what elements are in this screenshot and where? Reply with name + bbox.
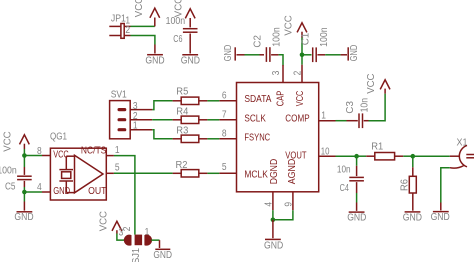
svg-text:C6: C6 bbox=[173, 34, 183, 45]
wire C4 to GND bbox=[356, 193, 358, 203]
U1 pin 7 stem bbox=[219, 119, 237, 121]
svg-text:8: 8 bbox=[222, 129, 227, 140]
wire JP1 pin1 to VCC bbox=[131, 25, 155, 27]
QG1 pin 8 stem bbox=[42, 155, 50, 157]
wire SJ1 pin1 to GND bbox=[151, 239, 159, 241]
svg-text:1: 1 bbox=[133, 121, 138, 132]
wire junction down to R6 bbox=[412, 156, 414, 167]
solder jumper SJ1 bbox=[124, 235, 152, 246]
ground at C2 (rotated) bbox=[235, 47, 244, 60]
svg-text:SDATA: SDATA bbox=[244, 94, 271, 105]
wire R4 to U1 pin7 bbox=[207, 119, 219, 121]
capacitor C1 bbox=[313, 47, 326, 62]
svg-text:GND: GND bbox=[431, 212, 450, 223]
svg-text:VCC: VCC bbox=[295, 91, 306, 107]
capacitor C2 bbox=[260, 47, 279, 62]
svg-text:QG1: QG1 bbox=[50, 132, 67, 143]
svg-text:VCC: VCC bbox=[98, 211, 109, 231]
wire pin9 down and left to junction bbox=[273, 210, 293, 220]
wire U1 pin10 (VOUT) to junction bbox=[336, 155, 357, 157]
svg-text:COMP: COMP bbox=[285, 113, 310, 124]
wire QG1 pin5 to R2 bbox=[114, 172, 173, 174]
svg-text:100n: 100n bbox=[166, 16, 186, 27]
VCC symbol at SJ1 bbox=[112, 221, 122, 233]
wire SV1 pin1 to R3 bbox=[152, 130, 172, 139]
svg-text:C4: C4 bbox=[340, 183, 350, 194]
op-amp U1 box (DAC IC) bbox=[237, 83, 319, 192]
U1 pin 1 stem bbox=[318, 120, 335, 122]
wire GND to C2 bbox=[245, 54, 260, 56]
svg-text:5: 5 bbox=[115, 163, 120, 174]
resistor R1 bbox=[366, 153, 403, 160]
ground at C6 bbox=[182, 45, 198, 55]
wire C5 to junction at QG1 pin4 bbox=[23, 187, 25, 192]
ground right of C1 (rotated) bbox=[341, 47, 349, 60]
svg-text:OUT: OUT bbox=[88, 186, 106, 197]
svg-text:C1: C1 bbox=[301, 32, 312, 45]
U1 pin 9 stem bbox=[292, 192, 294, 210]
svg-text:DGND: DGND bbox=[269, 159, 280, 185]
svg-text:7: 7 bbox=[222, 110, 227, 121]
svg-text:100n: 100n bbox=[272, 27, 283, 47]
QG1 pin 5 stem bbox=[106, 172, 114, 174]
svg-text:1: 1 bbox=[321, 110, 326, 121]
U1 pin 8 stem bbox=[219, 138, 237, 140]
oscillator QG1 box bbox=[50, 148, 106, 200]
svg-text:5: 5 bbox=[222, 162, 227, 173]
U1 pin 6 stem bbox=[219, 100, 237, 102]
svg-text:R1: R1 bbox=[371, 141, 383, 152]
capacitor C3 bbox=[347, 113, 369, 128]
ground at JP1 bbox=[147, 45, 163, 55]
junction VCC / C5 / QG1 pin8 bbox=[22, 153, 27, 158]
resistor R6 bbox=[409, 167, 416, 210]
svg-text:4: 4 bbox=[263, 202, 274, 207]
ground at C5 bbox=[17, 202, 33, 212]
svg-text:10n: 10n bbox=[359, 98, 370, 113]
svg-text:SJ1: SJ1 bbox=[131, 247, 142, 262]
svg-text:10n: 10n bbox=[337, 165, 351, 176]
wire R2 to U1 pin5 bbox=[207, 172, 219, 174]
resistor R3 bbox=[173, 135, 208, 142]
junction DGND/AGND bbox=[271, 218, 276, 223]
svg-text:R5: R5 bbox=[176, 86, 188, 97]
svg-text:1: 1 bbox=[115, 145, 120, 156]
svg-text:GND: GND bbox=[223, 45, 234, 62]
svg-text:SCLK: SCLK bbox=[244, 113, 266, 124]
QG1 pin 4 stem bbox=[42, 191, 50, 193]
svg-text:GND: GND bbox=[181, 55, 200, 66]
wire junction down to C4 bbox=[356, 156, 358, 166]
wire junction to QG1 pin8 bbox=[24, 155, 42, 157]
svg-text:GND: GND bbox=[349, 45, 360, 62]
svg-text:2: 2 bbox=[293, 70, 304, 75]
wire junction down to C5 bbox=[23, 156, 25, 168]
svg-text:GND: GND bbox=[153, 250, 172, 261]
junction R1 / R6 / X1 bbox=[411, 154, 416, 159]
svg-text:VCC: VCC bbox=[284, 15, 295, 35]
junction at VCC / C1 / IC pin2 bbox=[300, 53, 305, 58]
QG1 crystal bbox=[59, 156, 74, 192]
ground at C4 bbox=[349, 203, 365, 213]
U1 pin 10 stem bbox=[318, 155, 335, 157]
wire C2 to IC pin3 bbox=[279, 55, 283, 66]
svg-text:100n: 100n bbox=[0, 165, 17, 176]
ground at R6 bbox=[405, 211, 421, 213]
svg-text:2: 2 bbox=[122, 226, 133, 231]
svg-text:FSYNC: FSYNC bbox=[244, 132, 270, 143]
wire VCC down to junction bbox=[301, 38, 303, 55]
wire junction down to IC pin2 bbox=[301, 55, 303, 65]
resistor R2 bbox=[173, 170, 208, 177]
resistor R4 bbox=[173, 116, 208, 123]
ground at X1 bbox=[433, 203, 449, 212]
U1 pin 4 stem bbox=[272, 192, 274, 210]
capacitor C6 bbox=[183, 29, 198, 45]
svg-text:AGND: AGND bbox=[287, 159, 298, 185]
wire pin4 down to junction bbox=[272, 210, 274, 220]
svg-text:3: 3 bbox=[271, 70, 282, 75]
svg-text:C3: C3 bbox=[345, 101, 356, 114]
svg-text:GND: GND bbox=[53, 186, 70, 197]
connector SV1 bbox=[110, 101, 153, 139]
svg-text:6: 6 bbox=[222, 91, 227, 102]
VCC symbol at C1 bbox=[297, 23, 307, 38]
svg-text:GND: GND bbox=[14, 212, 33, 223]
svg-text:2: 2 bbox=[125, 25, 130, 36]
U1 pin 5 stem bbox=[219, 172, 237, 174]
connector X1 bbox=[450, 145, 474, 168]
svg-text:GND: GND bbox=[264, 240, 283, 251]
wire C1 to GND bbox=[325, 54, 340, 56]
IC pin 2 stem bbox=[301, 65, 303, 83]
capacitor C5 bbox=[17, 167, 32, 187]
svg-text:VCC: VCC bbox=[3, 131, 14, 151]
resistor R5 bbox=[173, 97, 208, 104]
wire junction to R1 bbox=[357, 155, 367, 157]
svg-text:10: 10 bbox=[321, 146, 330, 157]
svg-text:VCC: VCC bbox=[173, 0, 184, 17]
svg-text:VCC: VCC bbox=[134, 0, 145, 17]
QG1 pin 1 stem bbox=[106, 155, 114, 157]
svg-text:GND: GND bbox=[145, 55, 164, 66]
wire U1 pin1 to C3 bbox=[336, 120, 347, 122]
VCC symbol at C6 bbox=[185, 9, 195, 28]
svg-text:C2: C2 bbox=[252, 35, 263, 48]
wire QG1 pin1 to SJ1 (node NC/TS) bbox=[114, 156, 135, 235]
QG1 amplifier triangle bbox=[75, 155, 104, 193]
svg-text:NC/TS: NC/TS bbox=[81, 145, 107, 156]
wire SV1 pin2 to R4 bbox=[152, 119, 172, 121]
IC pin 3 stem bbox=[282, 65, 284, 83]
svg-text:100n: 100n bbox=[319, 27, 330, 47]
svg-text:GND: GND bbox=[403, 212, 422, 223]
wire JP1 pin2 to GND bbox=[131, 36, 155, 45]
svg-text:9: 9 bbox=[283, 202, 294, 207]
svg-text:CAP: CAP bbox=[276, 90, 287, 106]
junction VOUT / C4 bbox=[354, 154, 359, 159]
wire junction to QG1 pin4 bbox=[24, 191, 42, 193]
junction C5 / QG1 pin4 / GND bbox=[22, 190, 27, 195]
wire junction down to GND bbox=[23, 192, 25, 202]
svg-text:VCC: VCC bbox=[366, 74, 377, 94]
wire R3 to U1 pin8 bbox=[207, 138, 219, 140]
wire VCC to junction at QG1 pin8 bbox=[23, 149, 25, 156]
svg-text:X1: X1 bbox=[457, 138, 468, 149]
wire VCC to SJ1 pin3 bbox=[117, 234, 125, 241]
VCC symbol at JP1 bbox=[150, 8, 160, 26]
wire R5 to U1 pin6 bbox=[207, 100, 219, 102]
wire R1 to junction at R6 bbox=[403, 155, 413, 157]
wire X1 sleeve to GND bbox=[441, 168, 450, 203]
wire junction to X1 bbox=[413, 155, 450, 157]
wire C3 to VCC bbox=[369, 94, 386, 121]
connector JP1 bbox=[109, 24, 130, 39]
wire SV1 pin3 to R5 bbox=[152, 101, 172, 110]
VCC symbol at C5 bbox=[20, 135, 30, 149]
VCC symbol at C3 bbox=[380, 80, 390, 94]
ground at SJ1 bbox=[155, 240, 170, 249]
svg-text:GND: GND bbox=[347, 213, 366, 224]
wire junction to C1 bbox=[302, 54, 312, 56]
ground at U1 bbox=[265, 220, 281, 240]
svg-text:C5: C5 bbox=[5, 182, 16, 193]
capacitor C4 bbox=[349, 166, 364, 193]
svg-text:MCLK: MCLK bbox=[244, 170, 268, 181]
svg-text:SV1: SV1 bbox=[111, 89, 127, 100]
svg-text:4: 4 bbox=[37, 182, 42, 193]
